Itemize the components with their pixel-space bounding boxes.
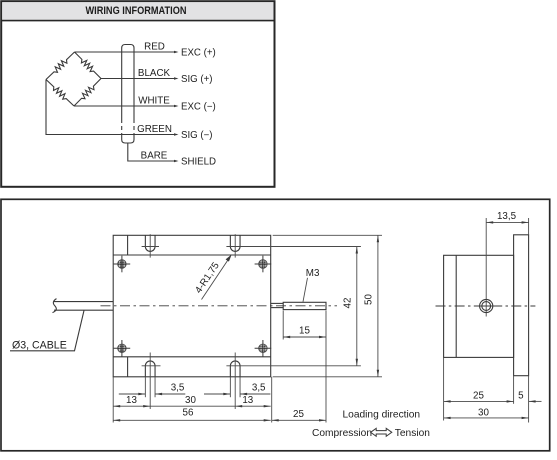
bottom slot 1 centerline xyxy=(149,353,151,410)
side view flange plate xyxy=(514,235,529,376)
bottom mounting slot 1 xyxy=(145,361,155,377)
wire end arrow SIG (+) xyxy=(174,77,179,80)
body edge extension lines for bottom dimensions xyxy=(112,377,114,423)
svg-text:Tension: Tension xyxy=(395,428,430,439)
svg-text:M3: M3 xyxy=(306,268,320,279)
cable tube Ø3 xyxy=(53,299,114,313)
wiring header band xyxy=(2,2,273,20)
svg-text:30: 30 xyxy=(478,407,489,418)
strain-gauge bridge resistor R1 (left-top arm) xyxy=(46,52,75,80)
svg-text:Compression: Compression xyxy=(312,428,372,439)
top slot 2 centerline xyxy=(234,234,236,257)
svg-text:3,5: 3,5 xyxy=(252,383,266,394)
label M3 with leader xyxy=(303,268,320,302)
dimension 30 xyxy=(150,395,235,406)
svg-text:SIG (−): SIG (−) xyxy=(181,130,213,141)
label 4-R1,75 with leader arrow xyxy=(193,254,231,299)
bottom slot 2 cross line / 42-dim bottom extension xyxy=(226,365,361,367)
corner screw hole H3 (hatched) with crosshair xyxy=(114,340,131,357)
bottom slot 2 side extension lines xyxy=(229,377,231,397)
wire end arrow EXC (-) xyxy=(174,105,179,108)
wire end arrow EXC (+) xyxy=(174,51,179,54)
dimension 56 xyxy=(113,407,271,421)
svg-text:BLACK: BLACK xyxy=(138,68,171,79)
top mounting slot 2 xyxy=(230,235,240,251)
side view horizontal centerline (dash-dot) xyxy=(436,305,536,307)
body left step line bottom xyxy=(127,357,129,377)
corner screw hole H4 (hatched) with crosshair xyxy=(255,340,272,357)
svg-text:EXC (+): EXC (+) xyxy=(181,47,216,58)
compression-tension double arrow xyxy=(371,428,392,436)
svg-text:WIRING INFORMATION: WIRING INFORMATION xyxy=(86,5,187,17)
dimension 13 (right) xyxy=(235,395,271,408)
load cell body outline (front view) xyxy=(113,235,271,376)
side view inner line xyxy=(455,255,457,357)
strain-gauge bridge resistor R3 (left-bottom arm) xyxy=(46,80,74,107)
side view bottom extension lines xyxy=(443,357,445,420)
wiring information box frame xyxy=(1,1,274,187)
body inner bottom line xyxy=(113,356,271,358)
wire BLACK: bridge right node to SIG (+) xyxy=(101,78,177,80)
bottom slot 1 side extension lines xyxy=(144,377,146,397)
dimension 25 (side view) xyxy=(444,390,514,402)
wire end arrow SHIELD xyxy=(174,160,179,163)
svg-text:SHIELD: SHIELD xyxy=(181,156,216,167)
svg-text:BARE: BARE xyxy=(141,150,168,161)
dimension 3,5 (right slot) xyxy=(204,383,270,396)
M3 threaded rod xyxy=(271,302,326,309)
svg-text:15: 15 xyxy=(299,326,310,337)
dimension 15 extension lines xyxy=(282,311,284,340)
body left step line top xyxy=(127,235,129,255)
bottom mounting slot 2 xyxy=(230,361,240,377)
svg-text:25: 25 xyxy=(473,390,484,401)
dimension 50 extension lines xyxy=(273,234,382,236)
svg-text:13,5: 13,5 xyxy=(497,211,517,222)
dimension 13 (left) xyxy=(113,395,150,408)
svg-text:5: 5 xyxy=(518,390,524,401)
svg-text:25: 25 xyxy=(293,409,304,420)
top slot 1 cross line xyxy=(142,246,159,248)
body inner top line xyxy=(113,254,271,256)
wire RED: bridge top node to EXC (+) xyxy=(75,51,178,53)
dimension 13,5 xyxy=(486,211,528,224)
wire WHITE: bridge bottom node to EXC (-) xyxy=(74,105,177,107)
svg-text:Ø3, CABLE: Ø3, CABLE xyxy=(12,340,67,352)
dimension 13,5 extension line right xyxy=(528,218,530,235)
svg-text:SIG (+): SIG (+) xyxy=(181,74,213,85)
corner screw hole H2 (hatched) with crosshair xyxy=(255,256,272,273)
side view main body xyxy=(444,255,514,357)
front view horizontal centerline (dash-dot) xyxy=(101,305,338,307)
side view hole centerline vertical xyxy=(485,218,487,317)
wire end arrow SIG (-) xyxy=(174,133,179,136)
strain-gauge bridge resistor R4 (bottom-right arm) xyxy=(74,79,101,107)
cable leader line xyxy=(10,311,84,351)
svg-text:13: 13 xyxy=(126,395,137,406)
corner screw hole H1 (hatched) with crosshair xyxy=(114,256,131,273)
svg-text:RED: RED xyxy=(144,41,165,52)
outline drawing box frame xyxy=(1,199,550,450)
svg-text:3,5: 3,5 xyxy=(171,383,185,394)
svg-text:WHITE: WHITE xyxy=(138,95,170,106)
wire GREEN: bridge left node down and right to SIG (-) xyxy=(46,80,177,135)
svg-text:42: 42 xyxy=(343,298,354,309)
dimension 5 (flange) xyxy=(518,390,541,402)
bottom slot 2 centerline xyxy=(234,353,236,410)
wire BARE: cable shield to SHIELD xyxy=(128,143,177,161)
dimension 25 (rod) xyxy=(272,409,326,421)
svg-text:56: 56 xyxy=(183,407,194,418)
dimension 42 xyxy=(343,247,358,366)
svg-text:EXC (−): EXC (−) xyxy=(181,101,216,112)
strain-gauge bridge resistor R2 (top-right arm) xyxy=(75,52,102,79)
svg-text:Loading direction: Loading direction xyxy=(343,410,421,421)
dimension 3,5 (left slot) xyxy=(119,383,186,396)
dimension 30 (side view) xyxy=(444,407,529,419)
cable sheath (capsule) xyxy=(122,45,134,144)
svg-text:GREEN: GREEN xyxy=(137,124,172,135)
top mounting slot 1 xyxy=(145,235,155,251)
svg-text:13: 13 xyxy=(242,395,253,406)
dimension 50 xyxy=(364,235,379,376)
dimension 15 xyxy=(283,326,326,339)
top slot 1 centerline xyxy=(149,234,151,257)
bottom slot 1 cross line xyxy=(142,365,161,367)
side view M3 hole circles xyxy=(480,299,493,312)
svg-text:30: 30 xyxy=(185,395,196,406)
svg-text:50: 50 xyxy=(364,294,375,305)
top slot 2 cross line / 42-dim top extension xyxy=(226,246,361,248)
